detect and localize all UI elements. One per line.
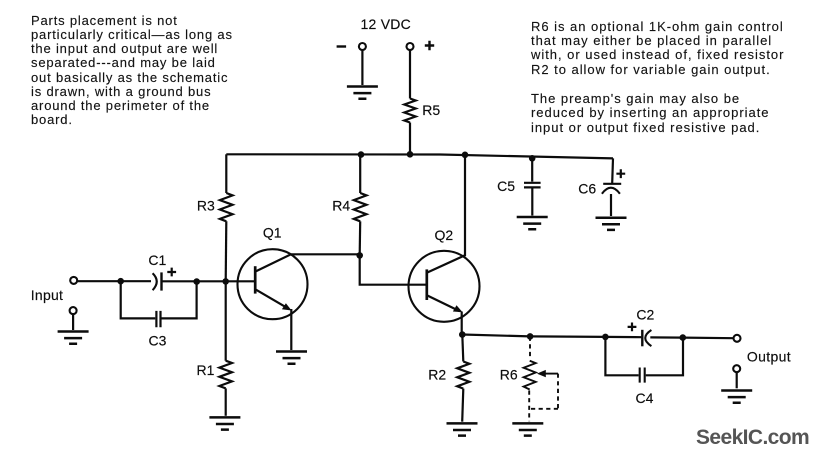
- svg-text:R2: R2: [428, 366, 446, 382]
- svg-text:R5: R5: [422, 102, 440, 118]
- svg-text:C2: C2: [636, 307, 654, 323]
- svg-text:Q1: Q1: [263, 225, 282, 241]
- svg-text:12 VDC: 12 VDC: [361, 16, 412, 32]
- svg-text:R6: R6: [500, 366, 518, 382]
- svg-text:Q2: Q2: [435, 227, 454, 243]
- svg-text:C1: C1: [148, 252, 166, 268]
- svg-text:C5: C5: [497, 178, 515, 194]
- svg-text:C4: C4: [636, 390, 654, 406]
- svg-text:Output: Output: [747, 348, 791, 364]
- svg-text:C6: C6: [578, 181, 596, 197]
- svg-text:R1: R1: [197, 362, 215, 378]
- svg-text:R3: R3: [197, 198, 215, 214]
- svg-text:R4: R4: [332, 198, 350, 214]
- svg-text:Input: Input: [31, 287, 63, 303]
- svg-text:C3: C3: [149, 332, 167, 348]
